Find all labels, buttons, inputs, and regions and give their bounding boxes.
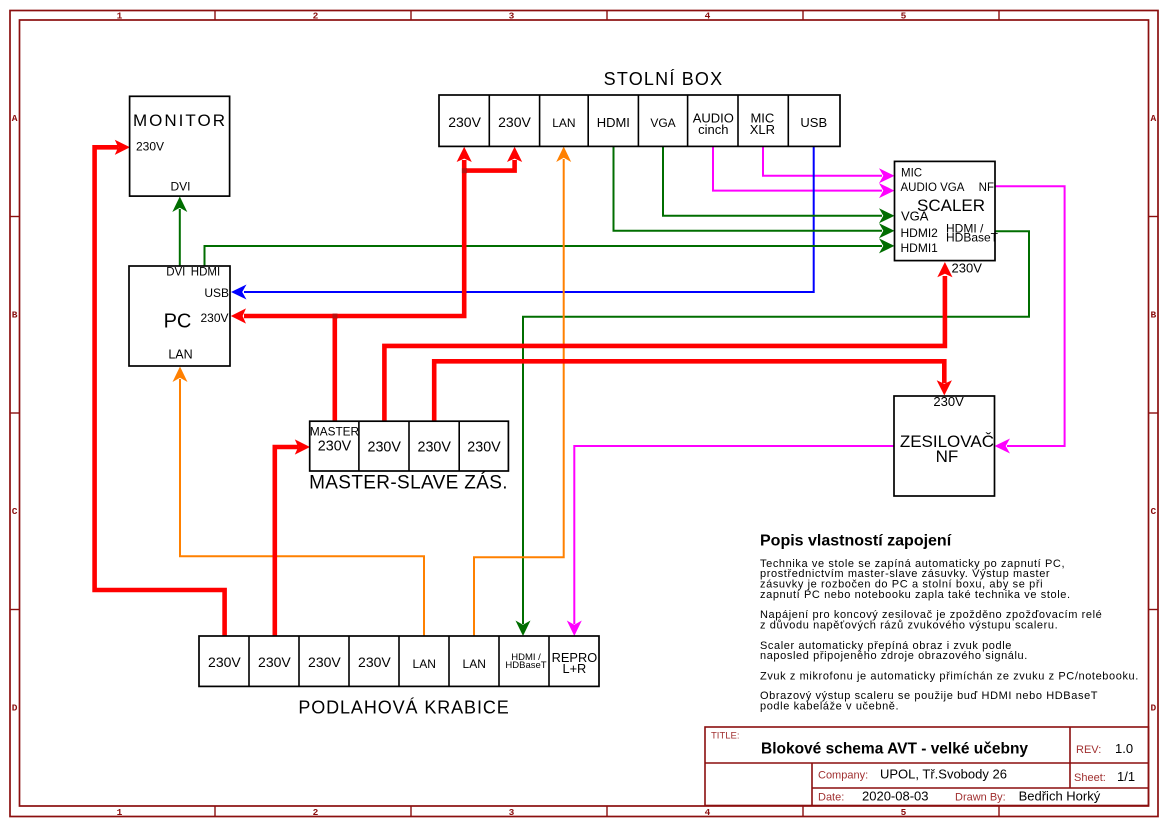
svg-text:STOLNÍ BOX: STOLNÍ BOX	[604, 69, 724, 89]
title block frame	[705, 727, 1149, 806]
junction node stolni stub	[462, 168, 467, 173]
svg-text:z důvodu napěťových rázů zvuko: z důvodu napěťových rázů zvukového výstu…	[760, 619, 1058, 631]
socket label podlahova LAN a	[413, 657, 436, 671]
component STOLNI BOX sockets	[439, 95, 840, 146]
wire MIC XLR to scaler	[763, 145, 895, 183]
svg-text:Zvuk z mikrofonu je automatick: Zvuk z mikrofonu je automaticky přimíchá…	[760, 670, 1139, 682]
svg-text:2: 2	[313, 10, 319, 21]
svg-text:Blokové schema AVT - velké uče: Blokové schema AVT - velké učebny	[761, 741, 1028, 758]
wire USB stolni to PC	[231, 145, 814, 300]
svg-text:C: C	[12, 506, 18, 517]
svg-text:1/1: 1/1	[1117, 769, 1135, 784]
svg-text:LAN: LAN	[463, 657, 486, 671]
label SCALER	[917, 196, 985, 215]
pin label PC 230V	[200, 311, 228, 325]
svg-text:Sheet:: Sheet:	[1074, 772, 1106, 784]
svg-text:230V: 230V	[136, 140, 164, 154]
svg-text:cinch: cinch	[698, 122, 728, 137]
svg-text:230V: 230V	[200, 311, 228, 325]
socket label podlahova 230V a	[208, 654, 241, 670]
svg-text:PC: PC	[164, 311, 192, 333]
wire 230V podlahova to master	[275, 439, 310, 636]
junction node master-PC	[333, 314, 338, 319]
svg-text:230V: 230V	[418, 439, 452, 455]
pin label scaler HDMI1	[901, 241, 939, 255]
title block TITLE label	[711, 731, 740, 742]
svg-text:230V: 230V	[258, 654, 291, 670]
svg-text:MIC: MIC	[901, 168, 922, 180]
wire scaler NF to zesilovac	[995, 186, 1065, 453]
svg-text:3: 3	[509, 807, 515, 818]
svg-text:4: 4	[705, 10, 711, 21]
svg-text:2: 2	[313, 807, 319, 818]
label STOLNI BOX heading	[604, 69, 724, 89]
wire 230V master to zesilovac	[434, 361, 952, 422]
svg-text:230V: 230V	[308, 654, 341, 670]
svg-text:NF: NF	[979, 182, 994, 194]
svg-text:MONITOR: MONITOR	[133, 111, 227, 130]
svg-text:230V: 230V	[933, 394, 964, 409]
svg-text:USB: USB	[800, 115, 827, 130]
svg-text:DVI: DVI	[166, 267, 185, 279]
pin label scaler AUDIO VGA	[901, 182, 965, 194]
svg-text:HDMI: HDMI	[191, 267, 220, 279]
svg-text:B: B	[1151, 310, 1157, 321]
svg-text:1.0: 1.0	[1115, 741, 1133, 756]
socket label podlahova 230V c	[308, 654, 341, 670]
socket label HDMI stolni	[597, 115, 630, 130]
pin label scaler HDBaseT	[946, 231, 999, 245]
svg-text:1: 1	[117, 807, 123, 818]
socket label podlahova 230V b	[258, 654, 291, 670]
wire 230V podlahova to monitor	[95, 140, 225, 636]
svg-text:MASTER: MASTER	[310, 425, 359, 439]
svg-text:Drawn By:: Drawn By:	[955, 792, 1006, 804]
socket label master 230V	[318, 438, 352, 454]
svg-text:4: 4	[705, 807, 711, 818]
svg-text:5: 5	[901, 10, 907, 21]
svg-text:Bedřich Horký: Bedřich Horký	[1019, 789, 1101, 804]
frame row letters	[12, 113, 1157, 714]
svg-text:A: A	[12, 113, 18, 124]
svg-text:230V: 230V	[208, 654, 241, 670]
text heading Popis	[760, 533, 952, 550]
svg-text:naposled připojeného zdroje ob: naposled připojeného zdroje obrazového s…	[760, 650, 1028, 662]
pin label monitor DVI	[170, 179, 190, 193]
label MONITOR	[133, 111, 227, 130]
frame column numbers	[117, 10, 907, 817]
component SCALER box	[895, 161, 996, 260]
svg-text:podle kabeláže v učebně.: podle kabeláže v učebně.	[760, 701, 899, 713]
label PODLAHOVA heading	[298, 698, 509, 718]
svg-text:zapnutí PC nebo notebooku zapl: zapnutí PC nebo notebooku zapla také tec…	[760, 589, 1071, 601]
text description paragraphs	[760, 558, 1139, 713]
wire PC DVI to monitor	[172, 197, 187, 267]
wire scaler HDBaseT to podlahova	[516, 231, 1030, 636]
wire master output riser	[332, 316, 337, 422]
wire stolni HDMI to scaler HDMI2	[614, 146, 895, 238]
wire stolni VGA to scaler VGA	[663, 146, 895, 223]
svg-text:A: A	[1151, 113, 1157, 124]
pin label scaler 230V	[952, 261, 983, 276]
svg-text:1: 1	[117, 10, 123, 21]
label PC	[164, 311, 192, 333]
label zesilovac NF	[936, 447, 959, 466]
wire podlahova LAN to stolni LAN	[474, 147, 571, 637]
title block main title	[761, 741, 1028, 758]
svg-text:REV:: REV:	[1076, 744, 1101, 756]
title block Company	[818, 766, 1007, 781]
pin label PC DVI	[166, 267, 185, 279]
pin label scaler HDMI2	[901, 226, 939, 240]
svg-text:230V: 230V	[448, 114, 481, 130]
label ZESILOVAC	[900, 432, 994, 451]
svg-text:TITLE:: TITLE:	[711, 731, 740, 742]
pin label zesilovac 230V	[933, 394, 964, 409]
pin label PC LAN	[168, 347, 192, 361]
svg-text:230V: 230V	[952, 261, 983, 276]
socket label MIC XLR	[750, 111, 775, 137]
socket label USB stolni	[800, 115, 827, 130]
svg-text:HDBaseT: HDBaseT	[505, 660, 546, 671]
svg-text:3: 3	[509, 10, 515, 21]
component MONITOR box	[130, 96, 230, 196]
wire 230V master to scaler	[384, 262, 952, 422]
socket label podlahova HDMI-HDBaseT	[505, 652, 546, 671]
svg-text:HDMI: HDMI	[597, 115, 630, 130]
svg-text:230V: 230V	[368, 439, 402, 455]
svg-text:5: 5	[901, 807, 907, 818]
socket label AUDIO cinch	[693, 111, 734, 137]
svg-text:XLR: XLR	[750, 122, 775, 137]
svg-text:VGA: VGA	[650, 116, 675, 130]
pin label scaler NF	[979, 182, 994, 194]
svg-text:Date:: Date:	[818, 792, 844, 804]
title block REV	[1076, 741, 1133, 756]
title block Sheet	[1074, 769, 1135, 784]
socket label LAN stolni	[552, 116, 575, 130]
socket label MASTER	[310, 425, 359, 439]
svg-text:2020-08-03: 2020-08-03	[862, 789, 929, 804]
svg-text:HDMI1: HDMI1	[901, 241, 939, 255]
svg-text:VGA: VGA	[901, 209, 929, 224]
svg-text:B: B	[12, 310, 18, 321]
label MASTER-SLAVE heading	[309, 473, 508, 494]
wire PC HDMI to scaler HDMI1	[205, 238, 895, 266]
socket label slave 230V b	[418, 439, 452, 455]
svg-text:230V: 230V	[318, 438, 352, 454]
svg-text:D: D	[12, 703, 18, 714]
svg-text:AUDIO VGA: AUDIO VGA	[901, 182, 965, 194]
socket label 230V a	[448, 114, 481, 130]
pin label PC USB	[204, 286, 229, 300]
wire podlahova LAN to PC	[173, 367, 425, 637]
socket label podlahova LAN b	[463, 657, 486, 671]
socket label VGA stolni	[650, 116, 675, 130]
socket label slave 230V a	[368, 439, 402, 455]
svg-text:HDMI2: HDMI2	[901, 226, 939, 240]
svg-text:230V: 230V	[467, 439, 501, 455]
svg-text:L+R: L+R	[562, 661, 586, 676]
component MASTER-SLAVE sockets	[310, 421, 509, 471]
wire zesilovac to REPRO	[567, 446, 894, 636]
svg-text:LAN: LAN	[413, 657, 436, 671]
svg-text:C: C	[1151, 506, 1157, 517]
socket label slave 230V c	[467, 439, 501, 455]
svg-text:USB: USB	[204, 286, 229, 300]
wire 230V to PC and stolni	[231, 147, 472, 324]
wire AUDIO cinch to scaler	[713, 145, 895, 198]
title block Date	[818, 789, 1101, 804]
pin label scaler VGA	[901, 209, 929, 224]
svg-text:230V: 230V	[358, 654, 391, 670]
pin label scaler HDMI out	[946, 221, 984, 235]
pin label PC HDMI	[191, 267, 220, 279]
svg-text:HDBaseT: HDBaseT	[946, 231, 999, 245]
component ZESILOVAC box	[894, 396, 995, 496]
component PC box	[129, 266, 230, 366]
wire 230V stolni second socket	[464, 147, 522, 171]
svg-text:UPOL, Tř.Svobody 26: UPOL, Tř.Svobody 26	[880, 766, 1007, 781]
svg-text:D: D	[1151, 703, 1157, 714]
svg-text:MASTER-SLAVE ZÁS.: MASTER-SLAVE ZÁS.	[309, 473, 508, 494]
component PODLAHOVA KRABICE sockets	[199, 636, 599, 686]
svg-text:LAN: LAN	[552, 116, 575, 130]
pin label scaler MIC	[901, 168, 922, 180]
svg-text:LAN: LAN	[168, 347, 192, 361]
svg-text:DVI: DVI	[170, 179, 190, 193]
svg-text:Company:: Company:	[818, 769, 868, 781]
svg-text:230V: 230V	[498, 114, 531, 130]
socket label podlahova 230V d	[358, 654, 391, 670]
svg-text:Popis vlastností zapojení: Popis vlastností zapojení	[760, 533, 952, 550]
socket label 230V b	[498, 114, 531, 130]
svg-text:NF: NF	[936, 447, 959, 466]
socket label REPRO L+R	[552, 650, 598, 676]
svg-text:PODLAHOVÁ KRABICE: PODLAHOVÁ KRABICE	[298, 698, 509, 718]
pin label monitor 230V	[136, 140, 164, 154]
